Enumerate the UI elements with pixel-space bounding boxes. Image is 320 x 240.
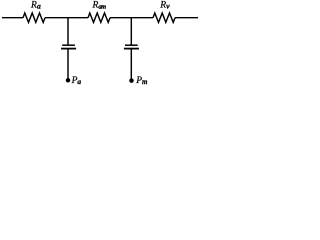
- resistor Ram: [88, 13, 110, 22]
- capacitor Cm bottom plate: [124, 48, 139, 50]
- svg-text:Pm: Pm: [135, 76, 148, 86]
- capacitor Cm top plate: [125, 44, 138, 46]
- resistor Ra: [23, 13, 45, 22]
- svg-text:Rv: Rv: [159, 0, 170, 10]
- node Pa terminal dot: [66, 78, 71, 83]
- svg-text:Ra: Ra: [30, 0, 41, 10]
- wire Ram to node B: [110, 17, 153, 19]
- wire Cm to Pm: [130, 49, 132, 79]
- svg-text:Pa: Pa: [71, 76, 82, 86]
- wire right lead: [175, 17, 198, 19]
- wire Ra to node A: [45, 17, 88, 19]
- capacitor Ca top plate: [62, 44, 75, 46]
- node B junction: [130, 18, 132, 46]
- resistor Rv: [153, 13, 175, 22]
- wire left lead: [2, 17, 23, 19]
- node Pm terminal dot: [129, 78, 134, 83]
- svg-text:Ram: Ram: [92, 0, 107, 10]
- node A junction: [67, 18, 69, 46]
- capacitor Ca bottom plate: [61, 48, 76, 50]
- wire Ca to Pa: [67, 49, 69, 79]
